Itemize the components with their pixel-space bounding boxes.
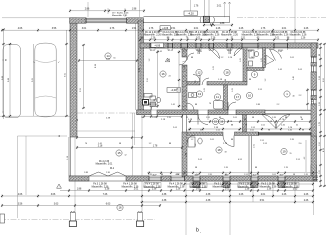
wall main north segment 2 (155, 43, 168, 48)
svg-text:2.01: 2.01 (290, 57, 294, 59)
svg-text:63: 63 (219, 117, 221, 119)
dimension line top long (2, 29, 318, 31)
svg-text:18: 18 (225, 71, 229, 75)
carport dim line mid (33, 44, 35, 116)
axis line bottom (0, 219, 155, 221)
north openings labels (149, 48, 151, 50)
wall east exterior upper (311, 43, 317, 57)
room circle 15 (12) (212, 118, 218, 124)
svg-text:6.51: 6.51 (323, 78, 325, 82)
svg-text:Maueröffn. 2.36: Maueröffn. 2.36 (260, 185, 277, 188)
bathtub room11 (214, 101, 224, 110)
svg-text:2.76: 2.76 (110, 28, 115, 30)
pier south 4 (278, 182, 285, 188)
wall south segment 2 (126, 176, 149, 181)
wall middle outline (137, 109, 312, 111)
svg-text:1.2: 1.2 (149, 59, 151, 62)
svg-text:2.51: 2.51 (147, 78, 149, 82)
svg-text:2.63: 2.63 (196, 188, 201, 190)
wall main north outline (140, 42, 318, 44)
svg-text:48-P: 48-P (279, 174, 284, 176)
grid line vertical K (294, 0, 296, 44)
window east 2 (310, 90, 312, 104)
wall west exterior (70, 18, 77, 137)
svg-text:2.26: 2.26 (282, 194, 287, 196)
dimension line top 2 (70, 10, 144, 12)
svg-text:86: 86 (6, 59, 8, 61)
window north 3 (181, 42, 188, 44)
east wall inner dim (307, 88, 309, 110)
dimension line right 1 (320, 44, 322, 186)
pier south 3 (251, 182, 258, 188)
svg-text:1.01: 1.01 (196, 174, 200, 176)
wall lower partition (248, 136, 250, 177)
dimension line left 1 (3, 30, 5, 120)
svg-text:3.56: 3.56 (18, 203, 23, 205)
door interior h2 (193, 75, 200, 82)
svg-text:76: 76 (300, 117, 302, 119)
grid line vertical A (74, 137, 76, 226)
dim extension room 19 (305, 140, 307, 172)
grid line vertical L (313, 182, 315, 215)
carport south edge (0, 115, 70, 117)
door lower north (223, 136, 234, 147)
opening middle right (265, 110, 311, 112)
svg-text:,: , (200, 230, 201, 234)
wall garage top segment 2 (127, 18, 144, 23)
svg-text:Maueröffn. 2.26: Maueröffn. 2.26 (290, 34, 307, 37)
svg-text:51: 51 (200, 130, 202, 132)
svg-text:+4,06: +4,06 (162, 28, 169, 30)
svg-text:3.06: 3.06 (51, 194, 56, 196)
svg-text:76: 76 (85, 143, 87, 145)
garage door track (132, 113, 134, 176)
canopy edge over entry (144, 15, 230, 17)
wall corridor west lower (182, 65, 187, 110)
car 2 (carport) (33, 43, 59, 117)
svg-text:3.01: 3.01 (82, 28, 87, 30)
svg-text:76: 76 (141, 117, 143, 119)
window east 3 (310, 150, 312, 165)
svg-text:98: 98 (293, 174, 295, 176)
terrace top dim (77, 137, 142, 139)
level box +4,06 entry (160, 26, 171, 30)
svg-text:61: 61 (114, 58, 116, 60)
grid line vertical I (229, 181, 231, 235)
svg-text:19: 19 (282, 150, 286, 154)
svg-text:7.26: 7.26 (103, 194, 108, 196)
svg-text:2.01: 2.01 (272, 174, 276, 176)
svg-text:4.06: 4.06 (18, 194, 23, 196)
window north 1 (150, 42, 155, 44)
svg-text:12: 12 (197, 71, 201, 75)
svg-text:3.38: 3.38 (105, 188, 110, 190)
svg-text:-4,06: -4,06 (154, 44, 160, 48)
wall corridor west (182, 49, 187, 57)
door swing entry north (209, 48, 220, 59)
svg-text:1.38: 1.38 (267, 188, 272, 190)
svg-text:3P-11: 3P-11 (227, 50, 233, 52)
door swing room13 (187, 103, 194, 110)
svg-text:1.2: 1.2 (191, 139, 194, 141)
svg-text:13: 13 (198, 92, 202, 96)
wall interior h2 (187, 82, 200, 86)
svg-text:2.01: 2.01 (282, 28, 287, 30)
svg-text:76: 76 (245, 124, 247, 126)
wall main north segment 7 (232, 43, 242, 48)
svg-text:1.88: 1.88 (256, 104, 260, 106)
wall south segment 7 (258, 176, 278, 181)
wall lower north right (235, 132, 259, 136)
wall main north segment 6 (214, 43, 228, 48)
room circle 14 garage (105, 53, 111, 59)
window north 8 (274, 42, 288, 44)
svg-text:76: 76 (177, 174, 179, 176)
svg-text:1.2: 1.2 (221, 57, 224, 59)
svg-text:2.26: 2.26 (304, 194, 309, 196)
svg-text:1.78: 1.78 (153, 145, 158, 147)
wall main north segment 8 (258, 43, 274, 48)
dimension line bottom 4 (2, 205, 160, 207)
svg-text:4.38: 4.38 (206, 194, 211, 196)
svg-text:1.88: 1.88 (77, 188, 82, 190)
triangle marker B (165, 58, 169, 62)
svg-text:2.2: 2.2 (277, 104, 280, 106)
svg-text:1.26: 1.26 (301, 38, 306, 40)
svg-text:96: 96 (225, 79, 227, 81)
svg-text:2.01: 2.01 (217, 6, 222, 8)
svg-text:17: 17 (236, 95, 240, 99)
dimension line right 2 (324, 44, 326, 186)
svg-text:12: 12 (125, 155, 127, 157)
axis line top right (237, 17, 326, 19)
svg-text:1.26: 1.26 (176, 188, 181, 190)
svg-text:Maueröffn. 2.36: Maueröffn. 2.36 (213, 185, 230, 188)
room circle 9 (3) (251, 71, 257, 77)
svg-text:1.51: 1.51 (319, 142, 321, 146)
svg-text:96: 96 (59, 135, 61, 137)
svg-text:88: 88 (169, 143, 171, 145)
window south 2 (171, 176, 185, 178)
svg-text:1.26: 1.26 (319, 102, 321, 106)
svg-text:1.51: 1.51 (260, 140, 264, 142)
south wall ticks row (184, 183, 313, 185)
wall garage top segment 1 (70, 18, 87, 23)
door upper right swing (270, 49, 282, 61)
room circle 11 (7) (214, 94, 220, 100)
south label boxes (144, 183, 161, 188)
wall middle segment 4 (236, 110, 265, 115)
svg-text:4.38: 4.38 (162, 194, 167, 196)
car 1 (carport small) (3, 45, 21, 118)
window north 6 (227, 42, 232, 44)
terrace dim line (77, 147, 182, 149)
svg-text:2.01: 2.01 (225, 188, 230, 190)
svg-text:24: 24 (169, 76, 171, 78)
svg-text:Maueröffn. 2.36: Maueröffn. 2.36 (122, 185, 139, 188)
wc room fixtures (249, 50, 259, 66)
svg-text:1.51: 1.51 (132, 28, 137, 30)
pier south 1 (193, 182, 200, 188)
svg-text:2.86: 2.86 (85, 9, 90, 11)
svg-text:1.26: 1.26 (272, 117, 276, 119)
window south 6 (278, 176, 285, 178)
wall stub hall (243, 115, 247, 133)
svg-text:1.41: 1.41 (98, 143, 102, 145)
svg-text:1.76: 1.76 (319, 122, 321, 126)
door swing lower (187, 135, 195, 143)
svg-text:1.26: 1.26 (288, 130, 292, 132)
room circle 18 (2) (224, 69, 230, 75)
svg-text:2.26: 2.26 (319, 76, 321, 80)
wall main north segment 5 (201, 43, 209, 48)
svg-text:1.76: 1.76 (149, 28, 154, 30)
svg-text:11: 11 (216, 95, 219, 99)
svg-text:15: 15 (117, 151, 121, 155)
svg-text:4.06: 4.06 (18, 28, 23, 30)
svg-text:Maueröffn. 2.26: Maueröffn. 2.26 (272, 34, 289, 37)
corridor wall marks (182, 51, 186, 53)
grid line vertical B (141, 113, 143, 221)
room circle 13 (6) (196, 91, 202, 97)
svg-text:14: 14 (106, 54, 110, 58)
svg-text:b: b (196, 228, 199, 234)
grid line vertical E (139, 0, 141, 17)
dimension line top short (204, 24, 232, 26)
wc fixtures (144, 94, 161, 107)
svg-text:3.63: 3.63 (293, 188, 298, 190)
svg-text:10: 10 (248, 94, 252, 98)
wall east lower (311, 136, 317, 181)
window south 3 (193, 176, 200, 178)
svg-text:3P-11: 3P-11 (168, 50, 174, 52)
svg-text:1.76: 1.76 (261, 28, 266, 30)
wall middle segment 3 (208, 110, 228, 115)
svg-text:Maueröffn. 2.26: Maueröffn. 2.26 (221, 34, 238, 37)
svg-text:-4,20: -4,20 (188, 12, 194, 16)
door middle hall down (198, 115, 208, 125)
east window1 mid block (311, 63, 317, 67)
garage width dim (79, 60, 137, 62)
svg-text:2.26: 2.26 (281, 124, 285, 126)
svg-text:88: 88 (231, 124, 233, 126)
door swing corridor 1 (187, 53, 194, 60)
wall main north segment 3 (173, 43, 182, 48)
wall middle segment 1 (137, 110, 152, 115)
wall interior h1 (247, 68, 264, 71)
svg-text:2.26: 2.26 (186, 130, 190, 132)
svg-text:40: 40 (293, 96, 295, 98)
room circle 15 (11) (116, 150, 122, 156)
wall interior v3 (243, 48, 247, 83)
room circle 19 (10) (281, 148, 287, 154)
double door middle right (262, 115, 290, 129)
svg-text:98: 98 (319, 54, 321, 56)
wall middle segment 2 (157, 110, 198, 115)
svg-text:2.36: 2.36 (106, 172, 110, 174)
wall south outline (69, 175, 318, 177)
wall south segment 4 (185, 176, 194, 181)
window garage north (86, 17, 127, 19)
svg-text:M-1: M-1 (110, 167, 115, 170)
grid line vertical D (107, 8, 109, 14)
wall south segment 8 (285, 176, 313, 181)
svg-text:98: 98 (252, 117, 254, 119)
svg-text:16: 16 (161, 72, 165, 76)
svg-text:1.88: 1.88 (220, 23, 225, 25)
grid line vertical H (224, 3, 226, 18)
svg-text:4.76: 4.76 (323, 148, 325, 152)
svg-text:3P-11: 3P-11 (150, 50, 156, 52)
svg-text:3.63: 3.63 (54, 203, 59, 205)
svg-text:63: 63 (238, 130, 240, 132)
svg-text:3.56: 3.56 (52, 28, 57, 30)
door swing north 2 (234, 48, 242, 56)
svg-text:1.2: 1.2 (149, 143, 152, 145)
room circle 10 (4) (246, 92, 252, 98)
svg-text:18 ↑ Stahlz. 2.26: 18 ↑ Stahlz. 2.26 (112, 12, 129, 15)
svg-text:88: 88 (302, 130, 304, 132)
svg-text:2.01: 2.01 (233, 117, 237, 119)
folding door M-1 south (89, 172, 126, 176)
svg-text:88: 88 (255, 167, 257, 169)
door swing room12 (202, 78, 209, 85)
pier plot edge (0, 214, 5, 223)
wall lower west (182, 132, 187, 177)
carport roof edge line (2, 17, 70, 19)
window north 5 (209, 42, 214, 44)
level box top (184, 11, 198, 15)
svg-text:1.01: 1.01 (319, 170, 321, 174)
north door leaves (182, 48, 184, 55)
wall south segment 6 (230, 176, 251, 181)
svg-text:1.01: 1.01 (152, 117, 156, 119)
dimension line bottom 2 (2, 195, 313, 197)
svg-text:6.63: 6.63 (106, 203, 111, 205)
south openings dim (147, 172, 318, 174)
svg-text:2.26: 2.26 (290, 139, 294, 141)
window dim row (140, 39, 318, 41)
svg-text:1.51: 1.51 (241, 38, 246, 40)
svg-text:2.01: 2.01 (261, 194, 266, 196)
svg-text:1.38: 1.38 (245, 188, 250, 190)
window south 4 (223, 176, 230, 178)
svg-text:6.51: 6.51 (260, 200, 265, 202)
svg-text:2.18: 2.18 (98, 145, 103, 147)
svg-text:76: 76 (251, 57, 253, 59)
door corridor west (179, 57, 187, 65)
svg-text:1.26: 1.26 (148, 174, 152, 176)
svg-text:88: 88 (195, 104, 197, 106)
svg-text:1.38: 1.38 (152, 188, 157, 190)
wall east exterior mid2 (311, 104, 317, 150)
dimension line bottom 1 (60, 190, 313, 192)
svg-text:1.26: 1.26 (304, 174, 308, 176)
wall south segment 5 (200, 176, 223, 181)
svg-text:1.0: 1.0 (195, 81, 197, 84)
wall east exterior lower (311, 165, 317, 181)
room circle small bottom (117, 204, 123, 210)
svg-text:1.51: 1.51 (244, 174, 248, 176)
washbasin room13 (189, 93, 197, 98)
svg-text:46-P: 46-P (152, 174, 157, 176)
level box -4,06 (151, 43, 164, 47)
room circle 16 (13) (219, 118, 225, 124)
pier extension lines (204, 0, 206, 16)
wall main north segment 4 (188, 43, 197, 48)
window south 5 (251, 176, 258, 178)
room circle 16 (0) (160, 71, 166, 77)
svg-text:2.26: 2.26 (304, 28, 309, 30)
garage opening dashed (77, 112, 138, 114)
terrace band dim (144, 116, 182, 118)
svg-text:2.01: 2.01 (210, 139, 214, 141)
pier south 2 (223, 182, 230, 188)
window north 7 (242, 42, 258, 44)
svg-text:86: 86 (77, 119, 79, 121)
svg-text:2.26: 2.26 (239, 194, 244, 196)
svg-text:Maueröffn. 2.26: Maueröffn. 2.26 (242, 34, 259, 37)
svg-text:51: 51 (225, 174, 227, 176)
svg-text:88: 88 (231, 139, 233, 141)
svg-text:Maueröffn. 2.36: Maueröffn. 2.36 (168, 185, 185, 188)
svg-text:63: 63 (257, 174, 259, 176)
svg-text:4.2: 4.2 (304, 157, 306, 160)
pier steel column top (203, 16, 209, 22)
pier plot left (71, 211, 76, 212)
svg-text:2.26: 2.26 (167, 117, 171, 119)
svg-text:18: 18 (225, 152, 227, 154)
svg-text:4.38: 4.38 (162, 200, 167, 202)
svg-text:1.98: 1.98 (132, 9, 137, 11)
wall main north segment 1 (140, 43, 150, 48)
svg-text:88: 88 (161, 174, 163, 176)
svg-text:51: 51 (296, 124, 298, 126)
wall south segment 3 (161, 176, 171, 181)
svg-text:98: 98 (268, 130, 270, 132)
pier bracket marks (200, 17, 214, 23)
shower triangle (266, 55, 274, 65)
svg-text:18: 18 (217, 148, 221, 152)
svg-text:2.01: 2.01 (134, 188, 139, 190)
svg-text:2.26: 2.26 (239, 28, 244, 30)
svg-text:51: 51 (186, 117, 188, 119)
chimney block (143, 100, 149, 106)
svg-text:1.76: 1.76 (284, 167, 288, 169)
svg-text:2.26: 2.26 (304, 200, 309, 202)
wall east exterior mid1 (311, 72, 317, 90)
svg-text:Maueröffn. 2.26: Maueröffn. 2.26 (203, 34, 220, 37)
svg-text:16: 16 (118, 206, 122, 210)
svg-text:2.26: 2.26 (208, 174, 212, 176)
svg-text:Maueröffn. 2.01: Maueröffn. 2.01 (112, 14, 128, 17)
svg-text:98: 98 (195, 167, 197, 169)
svg-text:2.01: 2.01 (250, 130, 254, 132)
east window mid block (311, 96, 317, 100)
svg-text:1.51: 1.51 (206, 117, 210, 119)
svg-text:76: 76 (209, 103, 211, 105)
svg-text:Maueröffn. 2.36: Maueröffn. 2.36 (92, 185, 109, 188)
grid line vertical F (190, 0, 192, 11)
svg-text:15: 15 (290, 153, 292, 155)
room circle 17 (8) (234, 94, 240, 100)
svg-text:1.01: 1.01 (261, 124, 265, 126)
warning triangle (57, 184, 62, 188)
svg-text:2.26: 2.26 (216, 28, 221, 30)
garage side dim line (135, 23, 137, 110)
bath fixtures lower (188, 137, 202, 147)
svg-text:1.41: 1.41 (171, 104, 175, 106)
